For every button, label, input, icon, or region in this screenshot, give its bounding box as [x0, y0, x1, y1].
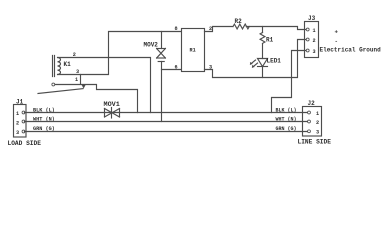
- varistor MOV1: [104, 101, 120, 118]
- svg-text:+: +: [335, 29, 339, 36]
- svg-text:LED1: LED1: [267, 58, 282, 65]
- svg-text:Electrical Ground: Electrical Ground: [320, 47, 382, 54]
- svg-text:1: 1: [75, 77, 78, 83]
- connector J2: [303, 100, 322, 136]
- wire GRN(G) bus: [25, 131, 308, 133]
- svg-text:3: 3: [313, 49, 316, 55]
- svg-text:8: 8: [175, 26, 178, 32]
- svg-text:1: 1: [316, 111, 319, 117]
- relay coil K1: [53, 56, 72, 77]
- wire J3 pin 3 to BLK bus: [272, 51, 306, 113]
- svg-text:6: 6: [175, 65, 178, 71]
- wire K1 pin 2 to BLK bus: [58, 58, 151, 113]
- wire MOV2 top stub: [161, 32, 163, 49]
- svg-text:2: 2: [313, 38, 316, 44]
- wire LED1 to bottom rail: [262, 67, 264, 78]
- svg-text:3: 3: [76, 69, 79, 75]
- svg-text:2: 2: [16, 120, 19, 126]
- module R1 (box): [182, 29, 205, 72]
- svg-text:WHT (N): WHT (N): [276, 117, 297, 123]
- wire module pin 2 to top rail: [205, 27, 234, 32]
- wire MOV2 bottom to WHT bus: [161, 62, 163, 122]
- svg-text:MOV2: MOV2: [144, 42, 159, 49]
- svg-text:R1: R1: [266, 37, 274, 44]
- svg-text:BLK (L): BLK (L): [276, 108, 297, 114]
- connector J1: [14, 99, 27, 138]
- svg-text:2: 2: [73, 52, 76, 58]
- svg-text:GRN (G): GRN (G): [276, 126, 297, 132]
- connector J3: [305, 15, 319, 58]
- LED LED1: [250, 58, 281, 68]
- svg-text:J3: J3: [308, 15, 316, 22]
- svg-text:1: 1: [313, 28, 316, 34]
- resistor R2: [233, 24, 249, 29]
- svg-text:MOV1: MOV1: [104, 101, 120, 109]
- svg-text:-: -: [335, 38, 338, 45]
- varistor MOV2: [144, 42, 166, 62]
- resistor R1: [260, 27, 274, 59]
- svg-text:BLK (L): BLK (L): [33, 108, 55, 114]
- wire top rail to J3 pin 1: [246, 27, 306, 30]
- wire contact to BLK bus: [55, 85, 138, 113]
- svg-text:J2: J2: [308, 100, 316, 107]
- svg-text:K1: K1: [64, 61, 72, 68]
- svg-text:J1: J1: [16, 99, 24, 106]
- wire BLK(L) bus: [25, 112, 308, 114]
- svg-text:R2: R2: [235, 18, 243, 25]
- relay contact K1: [38, 75, 85, 94]
- svg-text:3: 3: [316, 130, 319, 136]
- wire MOV2 junction to module pin 6: [162, 69, 182, 71]
- svg-text:1: 1: [16, 111, 19, 117]
- svg-text:2: 2: [316, 120, 319, 126]
- wire K1 pin 3 to module pin 8: [58, 32, 182, 75]
- svg-text:LINE SIDE: LINE SIDE: [298, 139, 332, 146]
- wire module pin 3 to bottom rail: [205, 40, 306, 78]
- svg-text:LOAD SIDE: LOAD SIDE: [8, 140, 42, 147]
- svg-text:3: 3: [16, 130, 19, 136]
- wire WHT(N) bus: [25, 121, 308, 123]
- svg-text:R1: R1: [190, 48, 196, 54]
